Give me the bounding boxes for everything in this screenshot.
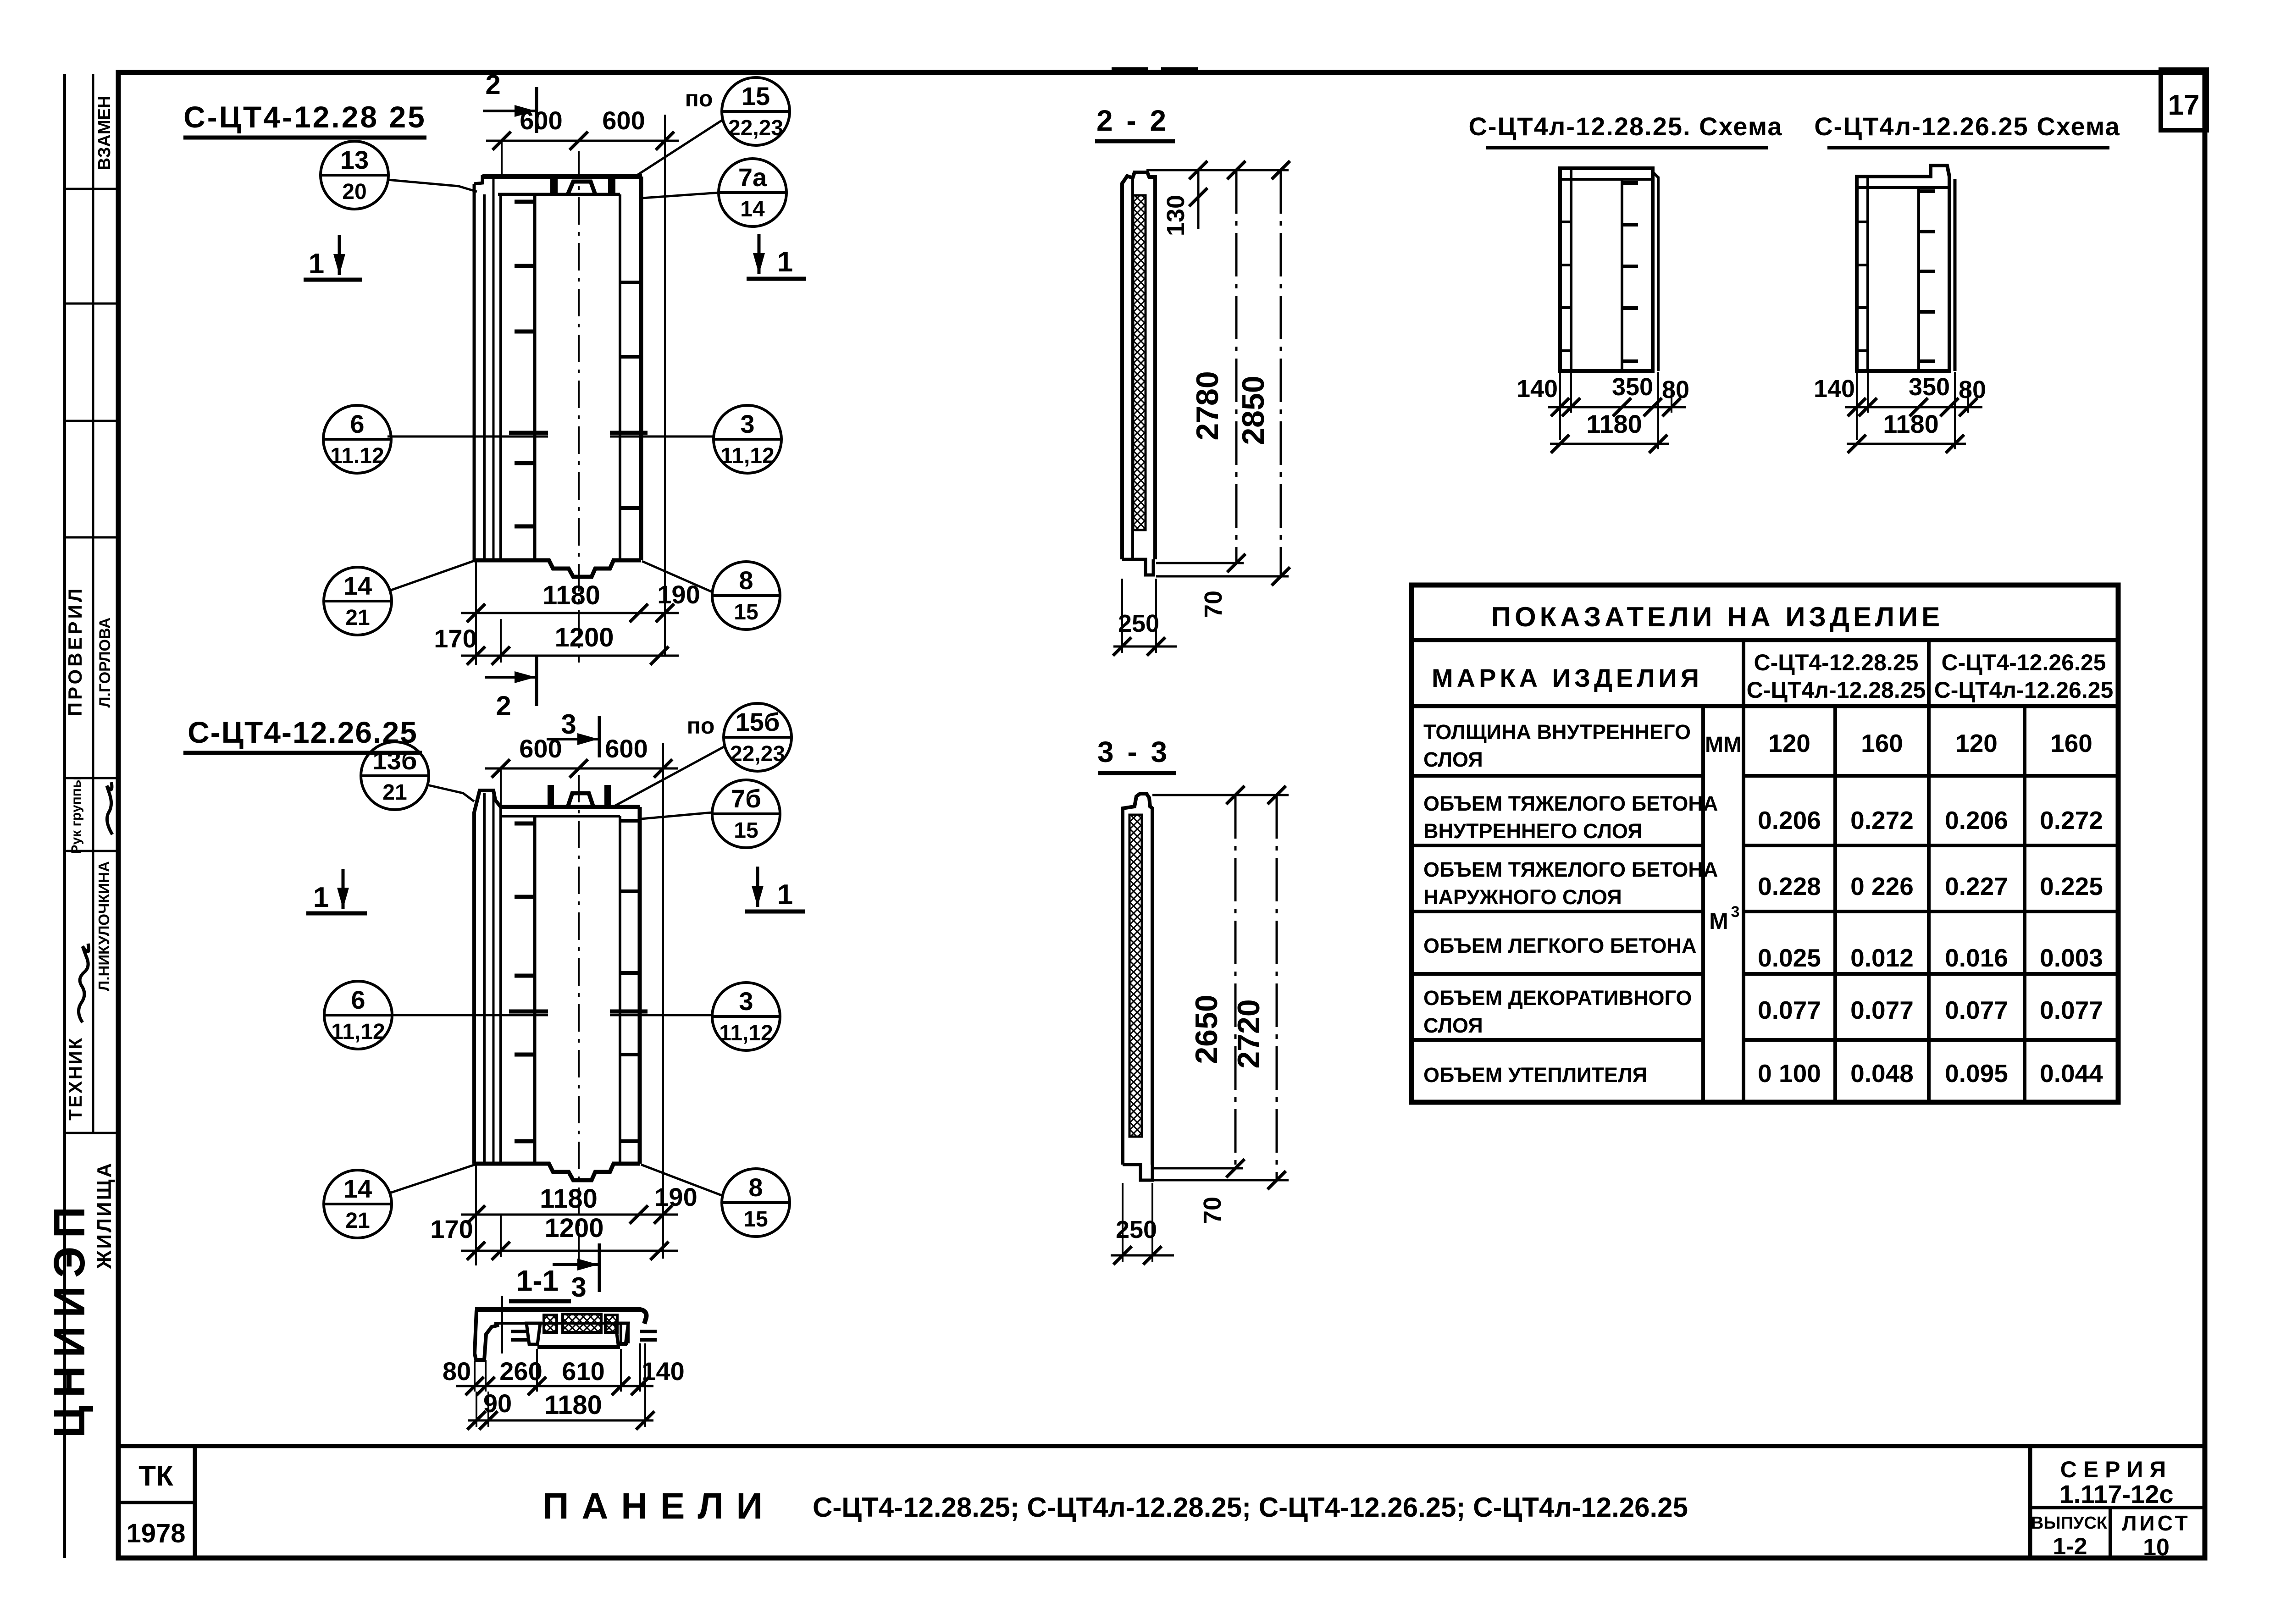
sheet number box 17 <box>2161 70 2207 130</box>
panel 1 centerline <box>578 151 580 663</box>
svg-text:190: 190 <box>654 1182 697 1211</box>
svg-text:0.077: 0.077 <box>2040 996 2103 1024</box>
callout 13б / 21 (panel2) <box>361 742 429 810</box>
svg-text:1180: 1180 <box>542 580 600 610</box>
panel 1 inner slab left edge with ribs <box>533 194 537 560</box>
svg-text:13: 13 <box>340 145 369 174</box>
svg-text:15: 15 <box>742 82 770 110</box>
svg-text:С-ЦТ4л-12.28.25. Схема: С-ЦТ4л-12.28.25. Схема <box>1468 112 1782 141</box>
svg-text:2 - 2: 2 - 2 <box>1096 104 1169 137</box>
schema 2 dimensions 140+350+80 <box>1814 372 1986 440</box>
section 1-1 left flange <box>475 1310 499 1360</box>
svg-text:22,23: 22,23 <box>730 742 785 766</box>
svg-text:7а: 7а <box>738 163 767 192</box>
panel 1 outer layer strip <box>473 184 476 560</box>
schema 2 outer right line <box>1954 179 1957 371</box>
svg-text:15: 15 <box>743 1207 768 1232</box>
svg-text:10: 10 <box>2143 1534 2170 1561</box>
dimension 90+1180 (section 1-1) <box>467 1343 654 1430</box>
svg-text:ММ: ММ <box>1705 733 1742 757</box>
svg-text:1180: 1180 <box>1586 409 1642 438</box>
sidebar signature squiggle 2 <box>78 944 89 1022</box>
svg-text:1: 1 <box>313 882 329 913</box>
sidebar stamp column <box>45 74 118 1558</box>
svg-text:260: 260 <box>499 1357 542 1386</box>
svg-text:0.228: 0.228 <box>1758 872 1821 900</box>
svg-text:ТОЛЩИНА ВНУТРЕННЕГО: ТОЛЩИНА ВНУТРЕННЕГО <box>1423 720 1691 744</box>
svg-text:0.048: 0.048 <box>1850 1059 1914 1088</box>
svg-text:0.012: 0.012 <box>1850 944 1914 972</box>
svg-text:3 - 3: 3 - 3 <box>1097 735 1170 768</box>
section marker 1 (left, panel1) <box>304 235 362 280</box>
svg-text:ТК: ТК <box>138 1460 173 1492</box>
svg-text:610: 610 <box>562 1357 604 1386</box>
panel 2 outer layer strip (peaked top) <box>474 790 501 1164</box>
svg-text:2: 2 <box>485 69 500 100</box>
section cut marker 2 (bottom) <box>485 657 537 721</box>
panel 1 hook recess <box>568 182 595 194</box>
svg-text:Рук группы: Рук группы <box>69 776 84 854</box>
svg-text:15б: 15б <box>736 707 780 736</box>
svg-text:80: 80 <box>1959 376 1986 403</box>
schema 2 dimension 1180 <box>1847 372 1966 453</box>
svg-text:ПРОВЕРИЛ: ПРОВЕРИЛ <box>64 586 86 716</box>
svg-text:11,12: 11,12 <box>720 444 774 468</box>
section 1-1 right rib <box>615 1323 628 1344</box>
panel C-CT4-12.28 25 title <box>183 100 426 138</box>
section title 1-1 <box>509 1264 571 1301</box>
svg-text:0 226: 0 226 <box>1850 872 1914 900</box>
svg-text:7б: 7б <box>731 784 761 813</box>
dimension 1180+190 (panel1) <box>461 560 700 665</box>
schema 1 dimension 1180 <box>1550 372 1669 453</box>
svg-text:11.12: 11.12 <box>330 444 384 468</box>
svg-text:0.044: 0.044 <box>2040 1059 2103 1088</box>
dimension 80+260+610+140 (section 1-1) <box>443 1343 685 1395</box>
leader 13b/21 <box>427 785 474 801</box>
svg-text:350: 350 <box>1909 373 1950 401</box>
svg-text:0.227: 0.227 <box>1945 872 2008 900</box>
leader 13/20 <box>387 180 477 192</box>
schema 1 dimensions 140+350+80 <box>1517 372 1689 440</box>
svg-text:1-1: 1-1 <box>516 1264 559 1297</box>
svg-text:170: 170 <box>430 1215 473 1243</box>
svg-text:ВЫПУСК: ВЫПУСК <box>2031 1514 2108 1533</box>
svg-text:1180: 1180 <box>544 1390 602 1420</box>
panel 1 bottom edge with notch <box>474 560 641 577</box>
svg-text:80: 80 <box>1662 376 1689 403</box>
svg-text:С-ЦТ4-12.28.25: С-ЦТ4-12.28.25 <box>1754 650 1919 675</box>
svg-text:С-ЦТ4-12.26.25: С-ЦТ4-12.26.25 <box>1942 650 2106 675</box>
svg-text:ПАНЕЛИ: ПАНЕЛИ <box>542 1486 775 1526</box>
table Показатели на изделие <box>1411 585 2118 1102</box>
svg-text:СЛОЯ: СЛОЯ <box>1423 748 1483 771</box>
callout 8 / 15 (panel1) <box>712 562 780 630</box>
section 1-1 centerline <box>501 1296 503 1353</box>
svg-text:ПОКАЗАТЕЛИ НА ИЗДЕЛИЕ: ПОКАЗАТЕЛИ НА ИЗДЕЛИЕ <box>1491 602 1943 632</box>
svg-text:20: 20 <box>342 180 366 204</box>
panel 2 inner slab left edge with ribs <box>533 816 537 1164</box>
callout 15б / 22,23 (panel2) <box>724 703 792 771</box>
svg-text:СЛОЯ: СЛОЯ <box>1423 1014 1483 1037</box>
svg-text:0 100: 0 100 <box>1758 1059 1821 1088</box>
svg-text:С-ЦТ4л-12.26.25 Схема: С-ЦТ4л-12.26.25 Схема <box>1814 112 2120 141</box>
section 2-2 title <box>1095 104 1175 141</box>
svg-text:15: 15 <box>734 818 758 843</box>
section marker 1 (right, panel1) <box>747 234 806 279</box>
svg-text:6: 6 <box>350 409 364 438</box>
svg-text:3: 3 <box>571 1272 586 1303</box>
svg-text:3: 3 <box>561 709 576 740</box>
svg-text:1180: 1180 <box>540 1184 598 1214</box>
svg-text:1200: 1200 <box>544 1213 603 1243</box>
panel C-CT4-12.26.25 title <box>183 715 422 753</box>
section 3-3 insulation strip <box>1129 815 1142 1137</box>
svg-text:13б: 13б <box>373 746 417 775</box>
panel 2 right joint strip <box>619 816 621 1164</box>
svg-text:по: по <box>687 713 715 739</box>
callout 6 / 11.12 (panel1) <box>323 405 391 473</box>
section 1-1 insulation blocks <box>544 1315 557 1332</box>
axis line panel2 <box>392 1011 713 1015</box>
svg-text:С-ЦТ4-12.28.25; С-ЦТ4л-12.28.: С-ЦТ4-12.28.25; С-ЦТ4л-12.28.25; С-ЦТ4-1… <box>813 1492 1688 1523</box>
svg-text:0.077: 0.077 <box>1758 996 1821 1024</box>
svg-text:600: 600 <box>519 734 562 763</box>
svg-text:14: 14 <box>343 1174 372 1203</box>
svg-text:2650: 2650 <box>1189 994 1224 1064</box>
svg-text:600: 600 <box>605 734 648 763</box>
callout 3 / 11,12 (panel1) <box>714 405 781 473</box>
svg-text:по: по <box>685 86 713 111</box>
leader 8/15 (panel2) <box>641 1165 723 1196</box>
svg-text:17: 17 <box>2168 89 2200 121</box>
svg-text:ВНУТРЕННЕГО СЛОЯ: ВНУТРЕННЕГО СЛОЯ <box>1423 819 1643 843</box>
dimension 170+1200 (panel1) <box>434 619 679 665</box>
section marker 1 (right, panel2) <box>745 867 805 911</box>
schema 1 body <box>1560 168 1658 371</box>
callout 14 / 21 (panel1) <box>324 567 392 635</box>
leader 7a/14 <box>642 193 720 198</box>
svg-text:2: 2 <box>496 690 511 721</box>
svg-text:0.272: 0.272 <box>1850 806 1914 834</box>
svg-text:С-ЦТ4л-12.26.25: С-ЦТ4л-12.26.25 <box>1934 677 2114 703</box>
svg-text:МАРКА ИЗДЕЛИЯ: МАРКА ИЗДЕЛИЯ <box>1432 663 1703 692</box>
svg-text:1200: 1200 <box>554 623 614 652</box>
svg-text:160: 160 <box>1861 729 1903 757</box>
svg-text:120: 120 <box>1955 729 1998 757</box>
svg-text:1978: 1978 <box>126 1519 185 1548</box>
svg-text:М: М <box>1709 908 1728 934</box>
svg-text:0.016: 0.016 <box>1945 944 2008 972</box>
svg-text:3: 3 <box>740 409 754 438</box>
svg-text:С-ЦТ4-12.28 25: С-ЦТ4-12.28 25 <box>183 100 426 134</box>
panel 1 right joint strip <box>619 194 621 560</box>
schema 2 body <box>1857 166 1955 371</box>
dimension 600+600 (panel 1 top) <box>486 106 679 656</box>
svg-text:ЛИСТ: ЛИСТ <box>2122 1511 2191 1535</box>
schema C-CT4l-12.26.25 title <box>1814 112 2120 148</box>
svg-text:0.077: 0.077 <box>1850 996 1914 1024</box>
callout 8 / 15 (panel2) <box>722 1169 790 1237</box>
stamp box ТК 1978 <box>118 1446 195 1558</box>
section 1-1 left rib <box>526 1323 540 1344</box>
title block <box>195 1446 2205 1561</box>
callout 3 / 11,12 (panel2) <box>712 983 780 1050</box>
svg-text:Л.ГОРЛОВА: Л.ГОРЛОВА <box>96 618 114 708</box>
svg-text:15: 15 <box>734 600 758 624</box>
section 1-1 right tab <box>620 1323 622 1343</box>
leader 14/21 (panel1) <box>390 560 476 591</box>
svg-text:6: 6 <box>351 985 365 1014</box>
svg-text:140: 140 <box>642 1357 684 1386</box>
svg-text:0.206: 0.206 <box>1945 806 2008 834</box>
svg-text:ВЗАМЕН: ВЗАМЕН <box>95 96 114 171</box>
svg-text:140: 140 <box>1814 375 1855 403</box>
svg-text:С-ЦТ4л-12.28.25: С-ЦТ4л-12.28.25 <box>1747 677 1926 703</box>
svg-text:ОБЪЕМ ТЯЖЕЛОГО БЕТОНА: ОБЪЕМ ТЯЖЕЛОГО БЕТОНА <box>1423 792 1718 815</box>
panel 2 top pins and hook recess <box>548 785 554 807</box>
axis line panel1 <box>387 433 714 436</box>
svg-text:1: 1 <box>777 879 793 911</box>
section 2-2 bottom foot <box>1122 559 1153 575</box>
panel 2 bottom edge with notch <box>474 1164 640 1180</box>
svg-text:8: 8 <box>748 1173 763 1202</box>
svg-text:600: 600 <box>520 106 562 135</box>
panel 2 outline and top band <box>474 775 640 1265</box>
svg-text:ОБЪЕМ УТЕПЛИТЕЛЯ: ОБЪЕМ УТЕПЛИТЕЛЯ <box>1423 1063 1647 1087</box>
dimension 600+600 (panel 2 top) <box>485 734 678 1259</box>
svg-text:22,23: 22,23 <box>728 116 783 140</box>
sidebar signature squiggle 1 <box>107 782 112 834</box>
schema C-CT4l-12.28.25 title <box>1468 112 1782 148</box>
svg-text:1: 1 <box>777 246 793 278</box>
svg-text:0.225: 0.225 <box>2040 872 2103 900</box>
leader 7b/15 <box>641 812 712 819</box>
svg-text:1.117-12с: 1.117-12с <box>2059 1480 2173 1508</box>
svg-text:21: 21 <box>345 606 370 630</box>
dimension 170+1200 (panel2) <box>430 1213 678 1260</box>
section 1-1 right anchor lines <box>640 1330 657 1333</box>
svg-text:11,12: 11,12 <box>719 1021 773 1045</box>
svg-text:14: 14 <box>740 197 765 221</box>
section 1-1 inner bottom edge <box>537 1345 620 1349</box>
svg-text:2720: 2720 <box>1231 999 1266 1068</box>
svg-text:21: 21 <box>382 780 407 805</box>
section 3-3 bottom foot <box>1123 1165 1152 1180</box>
panel 2 centerline <box>578 775 580 1265</box>
svg-text:ЦНИИЭП: ЦНИИЭП <box>45 1199 94 1438</box>
callout 15 / 22,23 (panel1) <box>722 77 790 145</box>
callout 6 / 11,12 (panel2) <box>324 981 392 1049</box>
panel 1 outline and top band <box>474 151 642 663</box>
fold marks on top border <box>1112 67 1148 72</box>
section cut marker 3 (bottom, panel2) <box>553 1243 599 1303</box>
svg-text:70: 70 <box>1199 1197 1226 1224</box>
section 3-3 title <box>1097 735 1176 773</box>
svg-text:СЕРИЯ: СЕРИЯ <box>2060 1457 2173 1482</box>
section 1-1 outer layer slab <box>475 1309 646 1324</box>
svg-text:0.272: 0.272 <box>2040 806 2103 834</box>
section cut marker 2 (top) <box>483 69 537 133</box>
svg-text:0.003: 0.003 <box>2040 944 2103 972</box>
svg-text:1: 1 <box>309 248 324 280</box>
callout 14 / 21 (panel2) <box>324 1170 392 1238</box>
svg-text:ТЕХНИК: ТЕХНИК <box>66 1036 86 1121</box>
section 1-1 drawing <box>475 1296 657 1360</box>
svg-text:130: 130 <box>1162 195 1190 236</box>
svg-text:0.025: 0.025 <box>1758 944 1821 972</box>
dimension 1180+190 (panel2) <box>461 1164 697 1265</box>
callout 13 / 20 (panel1) <box>321 141 388 209</box>
svg-text:21: 21 <box>345 1209 370 1233</box>
callout 7а / 14 (panel1) <box>719 159 786 226</box>
svg-text:140: 140 <box>1517 375 1558 403</box>
svg-text:70: 70 <box>1200 591 1227 618</box>
svg-text:14: 14 <box>343 571 372 600</box>
svg-text:0.095: 0.095 <box>1945 1059 2008 1088</box>
svg-text:11,12: 11,12 <box>331 1020 385 1044</box>
svg-text:ОБЪЕМ ЛЕГКОГО БЕТОНА: ОБЪЕМ ЛЕГКОГО БЕТОНА <box>1423 934 1696 957</box>
section 2-2 insulation strip <box>1133 195 1146 530</box>
leader 8/15 (panel1) <box>642 561 713 592</box>
section 3-3 dimensions <box>1111 786 1289 1265</box>
svg-text:0.206: 0.206 <box>1758 806 1821 834</box>
svg-text:350: 350 <box>1612 373 1653 401</box>
section 3-3 panel bar <box>1123 794 1152 1180</box>
svg-text:80: 80 <box>443 1357 471 1386</box>
svg-text:1180: 1180 <box>1883 409 1939 438</box>
section 1-1 left anchor lines <box>511 1330 527 1333</box>
leader 14/21 (panel2) <box>390 1165 475 1193</box>
svg-text:Л.НИКУЛОЧКИНА: Л.НИКУЛОЧКИНА <box>95 861 112 991</box>
svg-text:ОБЪЕМ ТЯЖЕЛОГО БЕТОНА: ОБЪЕМ ТЯЖЕЛОГО БЕТОНА <box>1423 858 1718 881</box>
svg-text:0.077: 0.077 <box>1945 996 2008 1024</box>
svg-text:600: 600 <box>602 106 645 135</box>
svg-text:ОБЪЕМ ДЕКОРАТИВНОГО: ОБЪЕМ ДЕКОРАТИВНОГО <box>1423 986 1692 1010</box>
svg-text:160: 160 <box>2050 729 2092 757</box>
svg-text:2850: 2850 <box>1236 376 1271 445</box>
svg-text:8: 8 <box>739 566 753 595</box>
section 2-2 panel bar <box>1122 172 1155 575</box>
svg-text:250: 250 <box>1118 610 1159 637</box>
section 2-2 dimensions <box>1113 161 1290 656</box>
callout 7б / 15 (panel2) <box>712 780 780 848</box>
svg-text:190: 190 <box>657 580 700 609</box>
svg-text:ЖИЛИЩА: ЖИЛИЩА <box>93 1161 116 1270</box>
svg-text:НАРУЖНОГО СЛОЯ: НАРУЖНОГО СЛОЯ <box>1423 885 1622 909</box>
section marker 1 (left, panel2) <box>306 869 367 913</box>
svg-text:1-2: 1-2 <box>2053 1533 2087 1560</box>
svg-text:2780: 2780 <box>1190 371 1225 440</box>
svg-text:120: 120 <box>1768 729 1810 757</box>
svg-text:170: 170 <box>434 624 476 653</box>
svg-text:3: 3 <box>739 987 753 1016</box>
section cut marker 3 (top, panel2) <box>547 709 599 757</box>
svg-text:3: 3 <box>1731 903 1740 921</box>
